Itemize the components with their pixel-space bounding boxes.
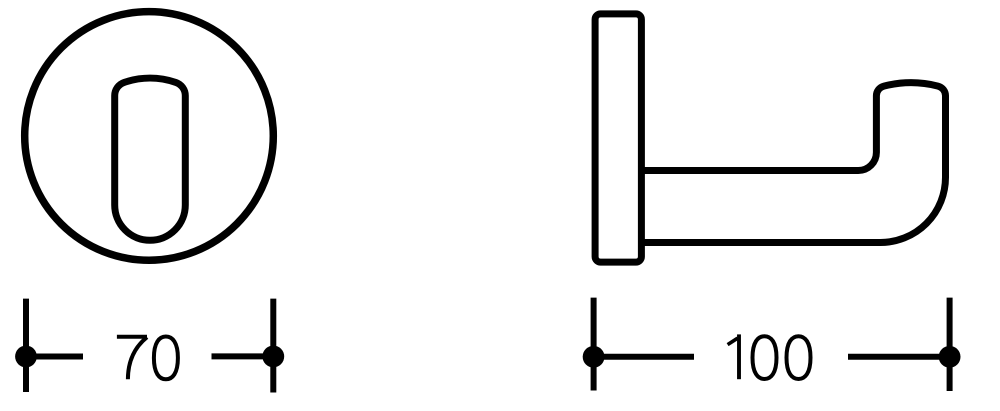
dimension 100: right extension line (947, 298, 953, 391)
front view: rosette outer circle (25, 12, 274, 261)
dimension 100: right terminator dot (939, 346, 961, 368)
front view: hook slot opening (115, 78, 186, 240)
side view: hook arm and upturned hook outline (642, 83, 946, 243)
dimension 100: second digit 0 (787, 336, 811, 379)
dimension 70: left terminator dot (15, 346, 37, 368)
dimension 100: first digit 0 (753, 336, 777, 379)
dimension 70: right terminator dot (262, 346, 284, 368)
dimension 70: digit 7 (117, 337, 147, 379)
dimension 100: left terminator dot (583, 346, 605, 368)
dimension 70: right extension line (270, 299, 276, 393)
dimension 70: right dimension line segment (212, 353, 274, 359)
dimension 100: left extension line (591, 298, 597, 391)
dimension 70: digit 0 (154, 337, 178, 380)
dimension 100: right dimension line segment (848, 354, 950, 360)
side view: wall plate (595, 14, 641, 262)
dimension 100: left dimension line segment (594, 354, 694, 360)
dimension 100: digit 1 (728, 334, 739, 379)
dimension 70: left extension line (23, 299, 29, 392)
dimension 70: left dimension line segment (26, 354, 83, 360)
